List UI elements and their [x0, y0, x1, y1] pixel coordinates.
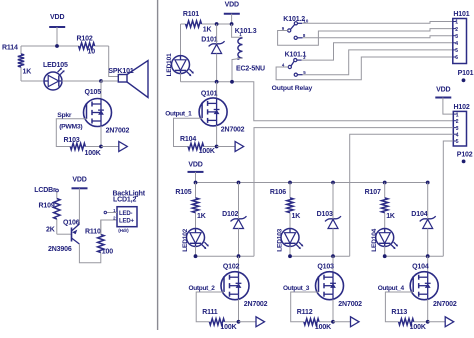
- wire K101.2 pin10 to H101 pin1: [302, 22, 453, 24]
- power VDD: [435, 87, 451, 98]
- wire VDD rail for output channels: [196, 182, 428, 184]
- transistor Q106 (PNP 2N3906): [48, 220, 80, 254]
- label K101.3 and pins: [235, 28, 257, 61]
- power VDD: [224, 2, 240, 14]
- svg-text:R103: R103: [64, 137, 80, 144]
- svg-text:Q106: Q106: [63, 220, 80, 227]
- wire H102 pin5 to output 4 node: [443, 141, 453, 256]
- LED LED105: [43, 62, 68, 90]
- zener diode D101: [201, 37, 224, 54]
- wire: [427, 183, 429, 219]
- svg-text:100K: 100K: [199, 148, 215, 155]
- resistor R102: [77, 36, 109, 56]
- zener diode D103: [317, 211, 341, 228]
- connector LCD1,2 backlight header: [113, 190, 146, 233]
- svg-text:LED102: LED102: [182, 228, 189, 251]
- wire: [238, 299, 240, 322]
- connector H102: [453, 111, 466, 146]
- svg-text:H101: H101: [453, 11, 469, 18]
- connector H101: [453, 19, 467, 64]
- junction D104 / Q104 drain: [426, 254, 430, 258]
- svg-text:Output_1: Output_1: [165, 111, 192, 118]
- resistor R110: [85, 220, 113, 256]
- port: [445, 317, 454, 327]
- svg-text:1K: 1K: [197, 213, 206, 220]
- svg-text:H102: H102: [454, 104, 470, 111]
- port: [351, 317, 360, 327]
- junction rail / D102: [237, 181, 241, 185]
- LED LED102: [182, 228, 209, 251]
- wire: [195, 172, 197, 183]
- junction rail / D104: [426, 181, 430, 185]
- svg-text:EC2-5NU: EC2-5NU: [236, 65, 265, 72]
- label EC2-5NU: [236, 65, 265, 72]
- wire K101.2 pin8 to H101 pin3: [303, 36, 453, 38]
- wire R109 to Q106 base: [57, 233, 72, 235]
- junction Q101 source / R104: [215, 145, 219, 149]
- wire K101.2 pin9 to H101 pin2: [278, 29, 453, 46]
- zener diode D102: [222, 211, 246, 228]
- junction LED103 / drain rail: [288, 254, 292, 258]
- wire K101.1 pin3 to H101 pin4: [302, 43, 453, 60]
- wire VDD to H102 pin1: [443, 98, 453, 115]
- wire: [238, 256, 240, 273]
- power VDD: [49, 14, 65, 27]
- label H102: [454, 104, 470, 111]
- svg-text:VDD: VDD: [50, 14, 64, 21]
- wire drain rail output 4: [385, 255, 444, 257]
- svg-text:5: 5: [455, 48, 458, 54]
- svg-text:D103: D103: [317, 211, 333, 218]
- svg-text:VDD: VDD: [436, 87, 450, 94]
- svg-text:VDD: VDD: [72, 177, 86, 184]
- wire LED105 to junction: [62, 80, 101, 82]
- wire: [216, 125, 218, 146]
- net label Output_4: [378, 285, 405, 292]
- svg-text:D102: D102: [222, 211, 238, 218]
- svg-text:Output_2: Output_2: [189, 285, 216, 292]
- svg-text:1K: 1K: [386, 213, 395, 220]
- svg-text:LCD1,2: LCD1,2: [113, 196, 136, 203]
- svg-text:Spkr: Spkr: [57, 112, 72, 119]
- pin 1 stub (n.c.): [104, 211, 117, 213]
- wire LED103 to drain rail: [289, 246, 291, 256]
- svg-text:2K: 2K: [46, 227, 55, 234]
- svg-text:2N7002: 2N7002: [221, 127, 245, 134]
- divider line between schematic sections: [157, 0, 159, 330]
- wire: [56, 27, 58, 46]
- svg-text:4: 4: [456, 132, 459, 138]
- svg-text:2N7002: 2N7002: [338, 301, 362, 308]
- transistor Q103 (NMOS): [316, 263, 363, 308]
- LED LED101: [166, 53, 194, 76]
- svg-text:10: 10: [88, 49, 96, 56]
- svg-text:Q102: Q102: [223, 263, 240, 270]
- svg-text:K101.2: K101.2: [283, 16, 305, 23]
- power VDD: [188, 161, 204, 172]
- svg-text:1K: 1K: [203, 27, 212, 34]
- junction Q102 source / R111: [237, 320, 241, 324]
- svg-text:P102: P102: [457, 151, 473, 158]
- svg-text:100K: 100K: [85, 150, 101, 157]
- resistor R113: [391, 309, 427, 331]
- svg-text:LCDBr: LCDBr: [34, 187, 56, 194]
- svg-text:Output Relay: Output Relay: [272, 85, 313, 92]
- wire: [21, 45, 79, 47]
- wire H102 pin4 to output 3 node: [350, 134, 454, 256]
- label H101: [453, 11, 469, 18]
- svg-text:Output_4: Output_4: [378, 285, 405, 292]
- wire: [109, 46, 119, 77]
- net label Output_3: [283, 285, 310, 292]
- junction VDD / R114 / R102: [55, 44, 59, 48]
- label P101: [458, 70, 474, 77]
- junction D102 / Q102 drain: [237, 254, 241, 258]
- wire: [332, 256, 334, 273]
- wire: [78, 188, 80, 224]
- wire: [100, 126, 102, 147]
- wire Output_3 net / gate Q103: [291, 292, 319, 322]
- junction Q103 source / R112: [331, 320, 335, 324]
- wire: [238, 183, 240, 219]
- transistor Q101 (NMOS): [199, 91, 245, 134]
- wire: [101, 80, 118, 82]
- svg-text:R112: R112: [297, 309, 313, 316]
- wire: [216, 24, 218, 44]
- junction rail / R107: [383, 181, 387, 185]
- svg-text:VDD: VDD: [188, 161, 202, 168]
- svg-text:1K: 1K: [23, 69, 32, 76]
- wire: [100, 81, 102, 100]
- wire LED104 to drain rail: [384, 246, 386, 256]
- svg-text:K101.3: K101.3: [235, 28, 257, 35]
- svg-text:R110: R110: [85, 229, 101, 236]
- svg-text:2N7002: 2N7002: [244, 301, 268, 308]
- resistor R109: [39, 192, 61, 234]
- wire LED102 to drain rail: [195, 246, 197, 256]
- transistor Q104 (NMOS): [410, 263, 457, 308]
- svg-text:2: 2: [455, 27, 458, 33]
- resistor R107: [365, 183, 395, 229]
- wire: [428, 321, 446, 323]
- svg-text:P101: P101: [458, 70, 474, 77]
- svg-text:SPK101: SPK101: [108, 68, 133, 75]
- svg-text:1: 1: [456, 112, 459, 118]
- svg-text:3: 3: [455, 34, 458, 40]
- resistor R103: [64, 137, 102, 157]
- junction D103 / Q103 drain: [331, 254, 335, 258]
- svg-text:100K: 100K: [220, 324, 236, 331]
- wire Spkr net / gate Q105: [56, 119, 86, 147]
- svg-text:100K: 100K: [410, 324, 426, 331]
- junction Q105 source / R103: [99, 145, 103, 149]
- wire: [216, 82, 218, 100]
- svg-text:R104: R104: [180, 136, 196, 143]
- port: [235, 142, 244, 152]
- wire: [332, 299, 334, 322]
- svg-text:LED101: LED101: [166, 53, 173, 76]
- svg-text:(Hdr): (Hdr): [118, 228, 129, 233]
- svg-text:2N3906: 2N3906: [48, 246, 72, 253]
- junction Q104 source / R113: [426, 320, 430, 324]
- wire drain rail output 3: [290, 255, 350, 257]
- port: [119, 142, 128, 152]
- net label Output_1: [165, 111, 192, 118]
- svg-text:100K: 100K: [315, 324, 331, 331]
- wire K101.1 pin5 to H101 pin5: [303, 50, 453, 75]
- wire left vertical to LED101: [180, 24, 182, 56]
- svg-text:100: 100: [102, 249, 113, 256]
- svg-text:Q104: Q104: [412, 263, 429, 270]
- wire coil bottom lead: [232, 58, 243, 82]
- label P102: [457, 151, 473, 158]
- wire LED101 to bottom rail: [180, 73, 182, 82]
- svg-text:(PWM3): (PWM3): [59, 124, 82, 131]
- svg-text:5: 5: [456, 139, 459, 145]
- wire: [217, 23, 232, 25]
- svg-text:LED105: LED105: [43, 62, 68, 69]
- svg-text:R102: R102: [77, 36, 93, 43]
- wire drain rail output 2: [196, 255, 255, 257]
- speaker SPK101: [108, 61, 148, 98]
- svg-text:6: 6: [455, 55, 458, 61]
- wire: [231, 14, 233, 24]
- wire K101.1 pin4 to H101 pin6: [276, 57, 453, 80]
- wire: [239, 321, 257, 323]
- svg-text:Q103: Q103: [317, 263, 334, 270]
- svg-text:R113: R113: [391, 309, 407, 316]
- svg-text:R106: R106: [270, 189, 286, 196]
- resistor R104: [180, 136, 217, 155]
- transistor Q102 (NMOS): [221, 263, 268, 308]
- LED LED104: [371, 228, 398, 251]
- resistor R105: [175, 183, 205, 229]
- comment (PWM3): [59, 124, 82, 131]
- junction coil / rail: [230, 80, 234, 84]
- svg-text:Output_3: Output_3: [283, 285, 310, 292]
- LED LED103: [276, 228, 303, 251]
- svg-text:R114: R114: [2, 45, 18, 52]
- net label LCDBr with pin: [34, 187, 58, 194]
- svg-text:2N7002: 2N7002: [106, 127, 130, 134]
- svg-text:1: 1: [455, 20, 458, 26]
- wire relay drive rail: [181, 82, 454, 121]
- wire: [101, 146, 119, 148]
- svg-text:R101: R101: [183, 11, 199, 18]
- wire: [427, 299, 429, 322]
- net label Spkr: [57, 112, 72, 119]
- junction rail / D103: [331, 181, 335, 185]
- resistor R112: [297, 309, 333, 331]
- svg-text:D104: D104: [411, 211, 427, 218]
- wire: [333, 321, 351, 323]
- resistor R106: [270, 183, 300, 229]
- svg-text:LED104: LED104: [371, 228, 378, 251]
- svg-text:LED103: LED103: [276, 228, 283, 251]
- svg-text:2: 2: [456, 119, 459, 125]
- svg-text:R109: R109: [39, 203, 55, 210]
- junction rail / R105: [194, 181, 198, 185]
- labels K101.2 pins: [282, 16, 309, 38]
- svg-text:Q105: Q105: [85, 89, 102, 96]
- wire: [332, 228, 334, 256]
- svg-text:D101: D101: [201, 37, 217, 44]
- svg-text:3: 3: [456, 126, 459, 132]
- wire coil top lead: [232, 24, 243, 37]
- relay contact K101.2: [288, 22, 303, 40]
- wire Output_2 net / gate Q102: [196, 292, 224, 322]
- P101 marker dot: [462, 78, 466, 82]
- svg-text:VDD: VDD: [225, 2, 239, 9]
- junction VDD / coil: [230, 22, 234, 26]
- wire LED105 anode: [21, 80, 44, 82]
- wire: [427, 228, 429, 256]
- power VDD: [72, 177, 88, 189]
- label Output Relay: [272, 85, 313, 92]
- svg-text:1K: 1K: [292, 213, 301, 220]
- wire: [238, 228, 240, 256]
- svg-text:R105: R105: [175, 189, 191, 196]
- resistor R101: [181, 11, 217, 34]
- wire R110 to LED+ pin: [101, 220, 117, 235]
- svg-text:LED+: LED+: [119, 218, 135, 224]
- junction LED102 / drain rail: [194, 254, 198, 258]
- svg-text:4: 4: [455, 41, 458, 47]
- resistor R114: [2, 45, 31, 82]
- zener diode D104: [411, 211, 435, 228]
- relay coil K101.3 K101.3: [238, 38, 243, 58]
- wire: [332, 183, 334, 219]
- wire Output_4 net / gate Q104: [385, 292, 413, 322]
- junction rail / R106: [288, 181, 292, 185]
- wire Q106 collector to R110: [79, 244, 100, 263]
- svg-text:R111: R111: [202, 309, 218, 316]
- wire: [216, 54, 218, 82]
- resistor R111: [202, 309, 238, 331]
- wire: [427, 256, 429, 273]
- svg-text:2N7002: 2N7002: [433, 301, 457, 308]
- svg-text:Q101: Q101: [201, 91, 218, 98]
- labels K101.1 pins: [282, 51, 307, 75]
- wire H102 pin3 to output 2 node: [254, 128, 453, 257]
- junction R101 / D101: [215, 22, 219, 26]
- wire: [217, 146, 236, 148]
- relay contact K101.1: [288, 59, 302, 77]
- svg-text:R107: R107: [365, 189, 381, 196]
- junction LED104 / drain rail: [383, 254, 387, 258]
- junction Q105 drain / speaker: [99, 79, 103, 83]
- junction D101 / Q101 drain: [215, 80, 219, 84]
- svg-text:LED-: LED-: [119, 211, 133, 217]
- net label Output_2: [189, 285, 216, 292]
- transistor Q105 (NMOS): [84, 89, 130, 134]
- port: [256, 317, 265, 327]
- P102 marker dot: [462, 160, 466, 164]
- wire Output_1 net / gate Q101: [174, 118, 203, 146]
